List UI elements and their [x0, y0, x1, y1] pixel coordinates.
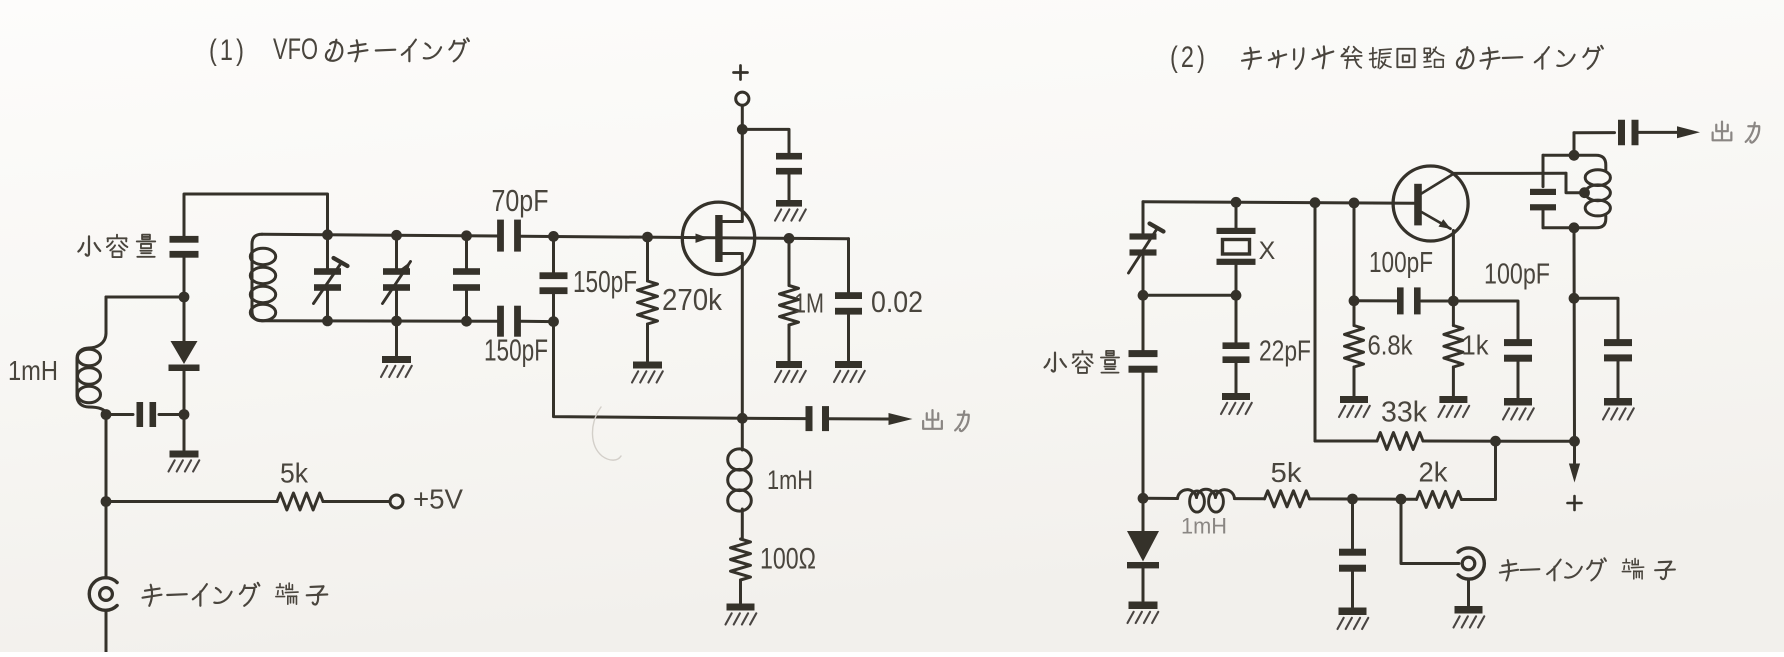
- wire 2k up to 33k rail: [1462, 441, 1496, 499]
- terminal supply circle c1: [736, 92, 749, 105]
- svg-text:1mH: 1mH: [8, 355, 58, 386]
- tank capacitor C15: [1530, 189, 1556, 211]
- svg-text:(1): (1): [209, 34, 247, 67]
- node dot 33k-2k: [1490, 436, 1501, 447]
- FET gate arrow: [696, 234, 710, 243]
- wire bottom-left rail: [106, 413, 133, 416]
- node dot emitter-100pF: [1448, 296, 1459, 307]
- label shokuoryo c2: [1045, 351, 1120, 373]
- inductor L3 1mH source: [728, 418, 752, 539]
- ground under D2 c2: [1128, 602, 1159, 624]
- label 5k: [280, 457, 309, 488]
- transistor Q1 FET circle: [682, 202, 754, 274]
- wire +5V rail: [106, 500, 277, 503]
- svg-text:0.02: 0.02: [871, 286, 923, 319]
- svg-text:100pF: 100pF: [1484, 259, 1550, 291]
- node dot tank tap: [1579, 187, 1590, 198]
- FET source lead: [719, 254, 742, 419]
- label 0.02: [871, 286, 923, 319]
- label 150pF right: [573, 264, 637, 299]
- wire output line c1: [554, 322, 806, 419]
- wire node C down to +5V rail: [105, 415, 108, 502]
- capacitor C10 22pF: [1221, 295, 1252, 414]
- resistor R9 1k: [1438, 301, 1469, 417]
- wire cap to node A: [183, 258, 186, 297]
- label keying-tanshi c2: [1500, 558, 1675, 580]
- svg-text:1k: 1k: [1462, 329, 1490, 360]
- svg-text:100pF: 100pF: [1369, 247, 1433, 279]
- resistor R4 100ohm: [731, 539, 751, 603]
- wire node A left: [106, 297, 184, 333]
- terminal +5V open circle: [390, 495, 403, 508]
- diode D1 (cathode down): [169, 297, 200, 415]
- svg-text:2k: 2k: [1419, 456, 1449, 487]
- capacitor C12 keying filter: [1339, 499, 1366, 607]
- capacitor C14 100pF right: [1453, 301, 1533, 420]
- inductor L2 tank coil: [250, 234, 275, 320]
- capacitor C13 100pF series: [1354, 287, 1453, 314]
- capacitor C16 output coupling c2: [1618, 120, 1639, 146]
- Q2 collector lead: [1422, 173, 1567, 193]
- ground under keying terminal 2: [1454, 606, 1485, 628]
- wire tank bottom rail: [262, 319, 554, 323]
- wire 6.8k branch: [1353, 203, 1356, 298]
- arrow output c1: [889, 413, 913, 425]
- svg-text:+5V: +5V: [413, 483, 463, 514]
- capacitor C3 fixed tank: [453, 236, 480, 321]
- label 100pF left: [1369, 247, 1433, 279]
- node dots top rail c2: [1231, 197, 1360, 208]
- ground under C12: [1338, 608, 1369, 630]
- svg-text:270k: 270k: [662, 282, 722, 317]
- ground under tank: [381, 321, 412, 377]
- svg-text:22pF: 22pF: [1259, 336, 1311, 368]
- inductor L1 1mH left: [77, 333, 106, 415]
- node dot tank bottom: [1569, 222, 1580, 233]
- wire node D to keying terminal: [105, 502, 108, 579]
- wire to 2k: [1401, 498, 1417, 501]
- wire tank bottom down to 33k rail: [1573, 228, 1577, 441]
- capacitor C17 far right: [1574, 298, 1634, 419]
- tank T1 loop wires: [1543, 155, 1606, 228]
- keying terminal 2: [1401, 499, 1484, 605]
- label 150pF bottom: [484, 333, 548, 368]
- node dot keying-node c2: [1396, 494, 1407, 505]
- label 1mH source: [767, 465, 813, 495]
- node dots tank top: [322, 229, 653, 242]
- wire coil to 5k: [1235, 497, 1265, 500]
- svg-text:5k: 5k: [1271, 457, 1303, 488]
- wire bottom rail to coil: [1143, 497, 1178, 500]
- label 1M: [794, 287, 824, 318]
- svg-text:150pF: 150pF: [484, 333, 548, 368]
- Q2 emitter lead: [1422, 212, 1454, 301]
- crystal X1: [1217, 202, 1256, 295]
- label shokuoryo (small capacitance) c1: [78, 235, 155, 257]
- ground under node B: [169, 415, 200, 472]
- arrow output c2: [1677, 126, 1700, 138]
- label 1mH left: [8, 355, 58, 386]
- title circuit 2: (2) carrier oscillator keying: [1170, 41, 1603, 74]
- resistor R1 5k: [277, 493, 323, 510]
- svg-text:1mH: 1mH: [1181, 513, 1227, 538]
- node dot output c1: [737, 413, 748, 424]
- node dot 6.8k-100pF: [1349, 295, 1360, 306]
- FET drain lead: [719, 105, 742, 221]
- node dot right branch: [1569, 293, 1580, 304]
- label 1mH c2 (faded): [1181, 513, 1227, 538]
- label 100pF right: [1484, 259, 1550, 291]
- svg-text:VFO: VFO: [273, 33, 318, 66]
- node dot gate-right (1M node): [784, 233, 795, 244]
- capacitor C11 shokuoryo c2: [1129, 295, 1158, 498]
- wire cap to node B: [159, 413, 184, 416]
- faint scratch mark: [592, 407, 621, 460]
- node B dot (diode bottom): [179, 409, 190, 420]
- capacitor C6 150pF series bottom: [497, 306, 521, 337]
- variable capacitor VC1 (trimmer): [314, 235, 348, 321]
- resistor R2 270k: [632, 237, 663, 382]
- title circuit 1: (1) VFO no keying: [209, 33, 469, 67]
- node dot cap-node c2: [1347, 494, 1358, 505]
- svg-text:6.8k: 6.8k: [1368, 329, 1414, 360]
- label 33k: [1381, 397, 1427, 429]
- node dot 33k right: [1569, 436, 1580, 447]
- wire tank top to output: [1574, 133, 1615, 156]
- wire 5k to terminal: [323, 500, 390, 503]
- resistor R6 2k: [1417, 491, 1462, 507]
- Q2 base bar: [1414, 184, 1422, 226]
- wire to arrow c1: [829, 417, 889, 420]
- tank inductor L5 coil: [1585, 170, 1610, 216]
- node D dot (+5V rail): [101, 496, 112, 507]
- label + supply c1: [734, 66, 748, 80]
- node dot supply: [737, 124, 748, 135]
- wire top loop left: [184, 194, 328, 237]
- wire tank top rail (gate rail): [262, 234, 849, 239]
- wire to arrow c2: [1639, 131, 1678, 134]
- node C dot (left): [101, 409, 112, 420]
- wire 33k feed from top rail: [1315, 203, 1377, 441]
- label X crystal: [1259, 237, 1276, 265]
- capacitor C8 0.02: [834, 239, 865, 382]
- diode D2 c2: [1127, 498, 1159, 601]
- wire crystal bottom to left rail: [1143, 294, 1236, 297]
- label + supply c2: [1568, 496, 1582, 510]
- keying terminal 1 (concentric): [89, 578, 117, 652]
- ground under C7: [775, 175, 806, 221]
- wire supply to bypass cap: [742, 129, 789, 152]
- wire 33k rail right: [1423, 440, 1575, 443]
- node dot crystal bottom: [1231, 290, 1242, 301]
- resistor R8 6.8k: [1339, 301, 1370, 417]
- resistor R7 33k: [1377, 433, 1423, 450]
- node dot bottom rail left c2: [1138, 493, 1149, 504]
- svg-text:33k: 33k: [1381, 397, 1427, 429]
- svg-text:150pF: 150pF: [573, 264, 637, 299]
- capacitor C-small (shokuoryo) circuit1: [170, 236, 199, 258]
- label 1k: [1462, 329, 1490, 360]
- label 2k: [1419, 456, 1449, 487]
- node A dot: [179, 292, 190, 303]
- label 70pF: [492, 183, 549, 218]
- ground under R4: [726, 604, 757, 625]
- label 100ohm: [760, 542, 816, 575]
- svg-text:100Ω: 100Ω: [760, 542, 816, 575]
- wire top rail c2: [1143, 202, 1415, 203]
- svg-text:(2): (2): [1170, 41, 1208, 74]
- svg-text:5k: 5k: [280, 457, 309, 488]
- label keying-tanshi c1: [143, 583, 328, 606]
- svg-text:1M: 1M: [794, 287, 824, 318]
- transistor Q2 circle: [1393, 166, 1468, 241]
- capacitor C9 output coupling c1: [806, 406, 830, 431]
- label output (shutsuryoku) c1: [923, 410, 969, 431]
- resistor R3 1M: [775, 238, 806, 382]
- label 5k c2: [1271, 457, 1303, 488]
- capacitor C4 70pF series: [497, 220, 521, 252]
- label +5V: [413, 483, 463, 514]
- label 270k: [662, 282, 722, 317]
- wire collector to tank tap: [1566, 173, 1582, 192]
- wire to keying node: [1353, 498, 1402, 501]
- node dots tank bottom: [322, 316, 559, 328]
- variable capacitor VC2: [383, 235, 411, 321]
- label 22pF: [1259, 336, 1311, 368]
- svg-text:X: X: [1259, 237, 1276, 265]
- svg-text:1mH: 1mH: [767, 465, 813, 495]
- node dot left rail c2: [1138, 290, 1149, 301]
- label 6.8k: [1368, 329, 1414, 360]
- svg-text:70pF: 70pF: [492, 183, 549, 218]
- FET channel bar: [715, 215, 722, 262]
- label output c2: [1713, 122, 1760, 143]
- supply arrow down c2: [1569, 441, 1580, 482]
- resistor R5 5k c2: [1265, 491, 1310, 507]
- capacitor C2 series bottom-left: [137, 402, 157, 427]
- wire 5k to nodes: [1310, 497, 1353, 500]
- variable capacitor VC3 c2: [1129, 202, 1164, 295]
- capacitor C7 bypass at supply: [776, 153, 802, 175]
- inductor L4 1mH c2: [1178, 489, 1235, 512]
- capacitor C5 150pF shunt: [540, 236, 568, 321]
- node dot tank top: [1569, 150, 1580, 161]
